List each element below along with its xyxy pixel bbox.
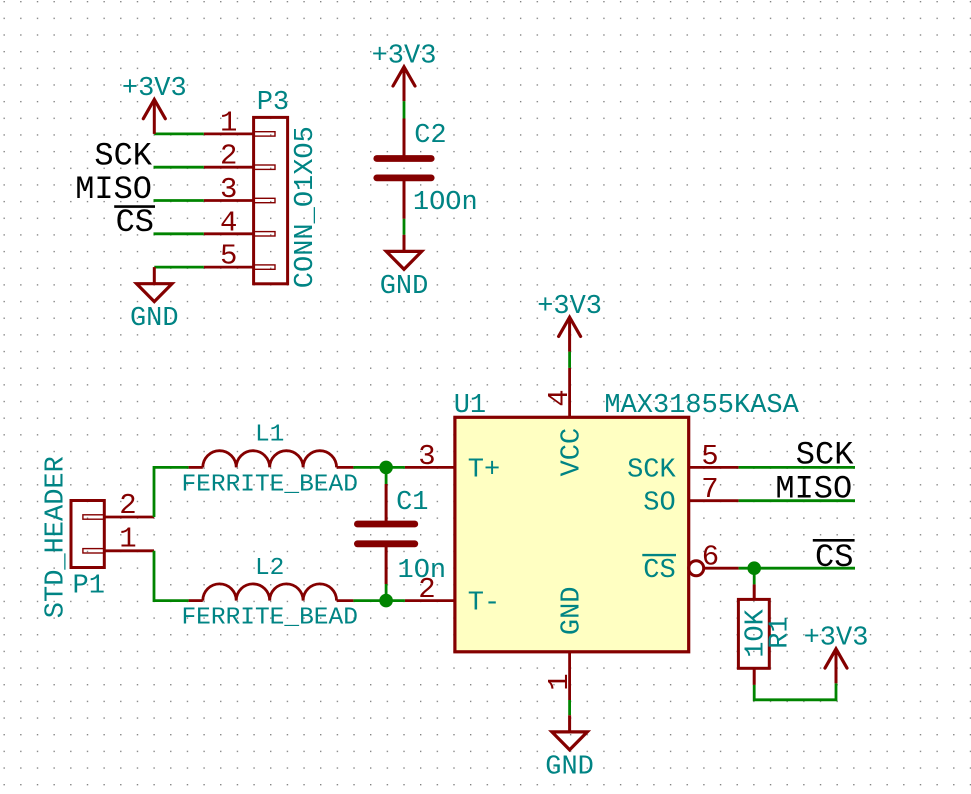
svg-text:L2: L2 (255, 555, 284, 582)
svg-text:C1: C1 (396, 488, 428, 518)
svg-text:2: 2 (220, 140, 237, 173)
svg-text:GND: GND (130, 304, 179, 334)
svg-text:1: 1 (119, 523, 136, 556)
svg-text:P3: P3 (257, 88, 289, 118)
svg-text:C2: C2 (414, 121, 446, 151)
svg-text:GND: GND (545, 752, 594, 782)
svg-text:4: 4 (220, 206, 237, 239)
svg-text:STD_HEADER: STD_HEADER (41, 456, 71, 618)
svg-text:SCK: SCK (796, 437, 854, 474)
svg-text:GND: GND (558, 586, 588, 635)
svg-text:P1: P1 (73, 572, 105, 602)
svg-text:+3V3: +3V3 (537, 292, 602, 322)
svg-text:MISO: MISO (75, 171, 152, 208)
svg-text:SO: SO (643, 489, 675, 519)
svg-text:SCK: SCK (627, 455, 676, 485)
svg-text:CONN_O1XO5: CONN_O1XO5 (291, 126, 321, 288)
svg-text:5: 5 (701, 440, 718, 473)
svg-text:MAX31855KASA: MAX31855KASA (604, 391, 799, 421)
svg-text:7: 7 (701, 473, 718, 506)
svg-text:U1: U1 (454, 391, 486, 421)
svg-text:+3V3: +3V3 (804, 624, 869, 654)
svg-text:3: 3 (418, 440, 435, 473)
svg-text:6: 6 (702, 540, 719, 573)
svg-text:2: 2 (119, 489, 136, 522)
svg-text:L1: L1 (255, 422, 284, 449)
svg-text:1: 1 (543, 673, 576, 690)
svg-text:VCC: VCC (558, 428, 588, 477)
svg-text:+3V3: +3V3 (122, 74, 187, 104)
svg-text:1On: 1On (398, 556, 447, 586)
svg-text:R1: R1 (765, 616, 795, 648)
svg-text:5: 5 (220, 240, 237, 273)
svg-text:FERRITE_BEAD: FERRITE_BEAD (181, 471, 357, 498)
svg-text:FERRITE_BEAD: FERRITE_BEAD (181, 605, 357, 632)
svg-text:CS: CS (643, 556, 675, 586)
svg-text:MISO: MISO (775, 470, 852, 507)
svg-text:GND: GND (380, 272, 429, 302)
svg-text:+3V3: +3V3 (372, 42, 437, 72)
svg-text:CS: CS (116, 204, 154, 241)
svg-text:4: 4 (543, 389, 576, 406)
svg-text:T-: T- (468, 589, 500, 619)
svg-text:1OOn: 1OOn (413, 188, 478, 218)
svg-text:CS: CS (815, 539, 853, 576)
svg-text:T+: T+ (468, 455, 500, 485)
svg-text:3: 3 (220, 173, 237, 206)
svg-text:SCK: SCK (94, 138, 152, 175)
svg-text:1: 1 (220, 106, 237, 139)
